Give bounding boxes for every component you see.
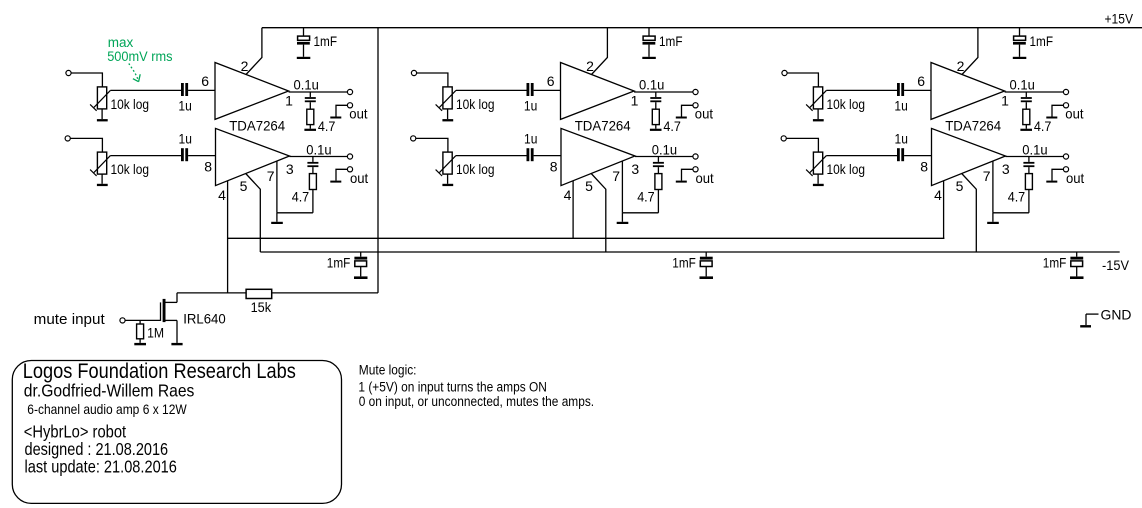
capacitor 0.1u (block 2 ch2 zobel) bbox=[652, 141, 677, 173]
annotation max 500mV rms bbox=[107, 35, 173, 64]
svg-text:8: 8 bbox=[550, 158, 558, 174]
resistor 15k (mute pull-up) bbox=[246, 289, 272, 315]
capacitor 1mF (block 1 -15V decoupling) bbox=[327, 252, 368, 279]
svg-text:7: 7 bbox=[983, 168, 991, 184]
input terminal J6 (block 3 ch2) bbox=[781, 136, 786, 141]
pin 3 label bbox=[286, 161, 294, 177]
svg-text:1u: 1u bbox=[178, 97, 191, 113]
output terminal (block 2 ch1) bbox=[693, 89, 698, 94]
pin 7 wire to ground bbox=[993, 161, 1029, 213]
wire cap to pin 8 bbox=[904, 155, 931, 157]
svg-text:1mF: 1mF bbox=[1043, 255, 1067, 271]
svg-text:4: 4 bbox=[218, 187, 226, 203]
pin 7 wire to ground bbox=[277, 161, 313, 213]
svg-text:10k log: 10k log bbox=[111, 96, 150, 112]
resistor 1M (gate pulldown) bbox=[137, 320, 165, 340]
wire input to potentiometer top bbox=[417, 73, 448, 87]
op-amp TDA7264 A (block 3 ch1) bbox=[931, 63, 1005, 120]
wire pot wiper to coupling cap bbox=[110, 155, 181, 157]
output terminal (block 3 ch1) bbox=[1063, 89, 1068, 94]
+15V rail bbox=[262, 11, 1142, 28]
svg-text:Mute logic:: Mute logic: bbox=[359, 363, 417, 378]
svg-text:IRL640: IRL640 bbox=[183, 311, 226, 327]
pin 3 output wire bbox=[1006, 156, 1064, 158]
svg-text:out: out bbox=[1066, 170, 1084, 186]
svg-text:3: 3 bbox=[286, 161, 294, 177]
svg-text:10k log: 10k log bbox=[456, 161, 495, 177]
svg-text:4.7: 4.7 bbox=[663, 118, 681, 134]
output ground terminal (block 2 ch2) bbox=[693, 167, 698, 172]
svg-text:mute input: mute input bbox=[34, 311, 106, 328]
svg-text:max: max bbox=[108, 35, 134, 50]
svg-text:0.1u: 0.1u bbox=[1010, 76, 1035, 92]
capacitor 0.1u (block 3 ch1 zobel) bbox=[1010, 76, 1035, 109]
pin 7 wire to ground bbox=[622, 161, 658, 213]
pin 4 label bbox=[564, 187, 572, 203]
svg-text:1: 1 bbox=[285, 92, 293, 108]
svg-text:1u: 1u bbox=[894, 97, 907, 113]
svg-text:1: 1 bbox=[631, 92, 639, 108]
pin 3 output wire bbox=[635, 156, 693, 158]
pin 7 label bbox=[983, 168, 991, 184]
svg-text:6-channel audio amp 6 x 12W: 6-channel audio amp 6 x 12W bbox=[27, 401, 187, 417]
wire pot wiper to coupling cap bbox=[826, 89, 897, 91]
capacitor 1u (block 3 ch1 input coupling) bbox=[894, 83, 907, 113]
pin 8 label bbox=[920, 158, 928, 174]
capacitor 1u (block 2 ch1 input coupling) bbox=[524, 83, 537, 113]
capacitor 1u (block 1 ch2 input coupling) bbox=[179, 131, 192, 162]
output terminal (block 1 ch2) bbox=[347, 154, 352, 159]
svg-text:4.7: 4.7 bbox=[1008, 189, 1026, 205]
wire pot wiper to coupling cap bbox=[456, 155, 527, 157]
output ground terminal (block 3 ch1) bbox=[1063, 103, 1068, 108]
pin 1 output wire bbox=[1005, 91, 1064, 93]
ground below potentiometer bbox=[442, 109, 453, 122]
op-amp TDA7264 B (block 3 ch2) bbox=[932, 128, 1006, 185]
IC label TDA7264 (block 3) bbox=[945, 117, 1001, 133]
svg-text:0 on input, or unconnected, mu: 0 on input, or unconnected, mutes the am… bbox=[359, 394, 594, 409]
ground hook at output bbox=[1046, 105, 1083, 121]
pin 4 label bbox=[218, 187, 226, 203]
op-amp TDA7264 B (block 1 ch2) bbox=[216, 128, 290, 185]
wire cap to pin 6 bbox=[188, 89, 215, 91]
output terminal (block 2 ch2) bbox=[693, 154, 698, 159]
mute bus (pin 4 net) bbox=[228, 237, 945, 239]
svg-text:6: 6 bbox=[201, 73, 209, 89]
svg-text:500mV rms: 500mV rms bbox=[107, 49, 173, 64]
svg-text:10k log: 10k log bbox=[827, 96, 866, 112]
op-amp TDA7264 A (block 1 ch1) bbox=[215, 63, 289, 120]
svg-text:-15V: -15V bbox=[1102, 257, 1130, 273]
capacitor 1mF (block 3 -15V decoupling) bbox=[1043, 252, 1084, 279]
wire cap to pin 8 bbox=[534, 155, 561, 157]
svg-text:1u: 1u bbox=[524, 131, 537, 147]
pin 1 label bbox=[1001, 92, 1009, 108]
svg-text:4.7: 4.7 bbox=[318, 118, 336, 134]
+15V feed to mute pull-up wire bbox=[377, 28, 379, 293]
input terminal J4 (block 2 ch2) bbox=[411, 136, 416, 141]
wire cap to pin 6 bbox=[534, 89, 561, 91]
svg-text:4.7: 4.7 bbox=[1034, 118, 1052, 134]
wire input to potentiometer top bbox=[416, 138, 448, 152]
pin 4 label bbox=[934, 187, 942, 203]
ground at pin 7 bbox=[617, 213, 629, 224]
pin 7 label bbox=[267, 168, 275, 184]
potentiometer 10k log (block 2 ch1) bbox=[436, 87, 495, 112]
svg-text:dr.Godfried-Willem Raes: dr.Godfried-Willem Raes bbox=[24, 381, 195, 401]
wire input to potentiometer top bbox=[70, 138, 102, 152]
svg-text:1 (+5V) on input turns the amp: 1 (+5V) on input turns the amps ON bbox=[358, 380, 547, 395]
ground below potentiometer bbox=[813, 109, 824, 122]
capacitor 0.1u (block 1 ch2 zobel) bbox=[306, 141, 331, 173]
wire 4.7 down to pin7 node bbox=[657, 190, 659, 213]
svg-text:15k: 15k bbox=[251, 299, 272, 315]
resistor 4.7 (block 2 ch2 zobel) bbox=[637, 174, 662, 205]
svg-text:2: 2 bbox=[586, 58, 594, 74]
svg-text:1mF: 1mF bbox=[1030, 33, 1054, 49]
svg-text:2: 2 bbox=[241, 58, 249, 74]
pin 8 label bbox=[204, 158, 212, 174]
svg-text:1mF: 1mF bbox=[672, 255, 696, 271]
ground hook at output bbox=[676, 169, 714, 186]
capacitor 0.1u (block 3 ch2 zobel) bbox=[1022, 141, 1047, 173]
wire cap to pin 8 bbox=[188, 155, 215, 157]
resistor 4.7 (block 1 ch2 zobel) bbox=[292, 174, 317, 205]
resistor 4.7 (block 1 ch1 zobel) bbox=[307, 109, 336, 134]
pin 8 label bbox=[550, 158, 558, 174]
wire input to potentiometer top bbox=[787, 73, 818, 87]
ground below potentiometer bbox=[813, 174, 824, 186]
pin 5 wire down to -15V rail bbox=[591, 174, 606, 253]
ground hook at output bbox=[330, 169, 368, 186]
wire input to potentiometer top bbox=[786, 138, 818, 152]
wire mute input to gate bbox=[125, 319, 160, 321]
input terminal J5 (block 3 ch1) bbox=[782, 70, 787, 75]
resistor 4.7 (block 3 ch1 zobel) bbox=[1023, 109, 1052, 134]
GND reference symbol bbox=[1080, 307, 1131, 328]
pin 5 label bbox=[240, 178, 248, 194]
pin 5 label bbox=[956, 178, 964, 194]
ground hook at output bbox=[330, 105, 367, 121]
svg-text:TDA7264: TDA7264 bbox=[575, 117, 631, 133]
ground at pin 7 bbox=[271, 213, 283, 224]
op-amp TDA7264 A (block 2 ch1) bbox=[561, 63, 635, 120]
ground hook at output bbox=[676, 105, 713, 121]
resistor 4.7 (block 3 ch2 zobel) bbox=[1008, 174, 1033, 205]
capacitor 1mF (block 1 +15V decoupling) bbox=[297, 28, 337, 59]
output ground terminal (block 2 ch1) bbox=[693, 103, 698, 108]
potentiometer 10k log (block 2 ch2) bbox=[436, 152, 495, 177]
transistor IRL640 (mute MOSFET) bbox=[161, 293, 226, 327]
svg-text:7: 7 bbox=[267, 168, 275, 184]
pin 6 label bbox=[917, 73, 925, 89]
svg-text:0.1u: 0.1u bbox=[652, 141, 677, 157]
pin 1 output wire bbox=[289, 91, 348, 93]
potentiometer 10k log (block 1 ch2) bbox=[90, 152, 149, 177]
input terminal J3 (block 2 ch1) bbox=[411, 70, 416, 75]
capacitor 0.1u (block 2 ch1 zobel) bbox=[639, 76, 664, 109]
pin 4 wire down to mute bus bbox=[943, 181, 945, 238]
pin 2 wire to +15V rail bbox=[246, 28, 262, 75]
svg-text:1u: 1u bbox=[179, 131, 192, 147]
capacitor 1u (block 1 ch1 input coupling) bbox=[178, 83, 191, 113]
capacitor 1u (block 3 ch2 input coupling) bbox=[895, 131, 908, 162]
wire 4.7 down to pin7 node bbox=[1028, 190, 1030, 213]
pin 2 wire to +15V rail bbox=[962, 28, 978, 75]
svg-text:4: 4 bbox=[934, 187, 942, 203]
svg-text:6: 6 bbox=[917, 73, 925, 89]
resistor 4.7 (block 2 ch1 zobel) bbox=[652, 109, 681, 134]
svg-text:out: out bbox=[695, 106, 713, 122]
ground below 4.7 resistor bbox=[304, 125, 316, 131]
pin 2 label bbox=[586, 58, 594, 74]
capacitor 0.1u (block 1 ch1 zobel) bbox=[294, 76, 319, 109]
potentiometer 10k log (block 3 ch2) bbox=[806, 152, 865, 177]
pin 7 label bbox=[612, 168, 620, 184]
wire cap to pin 6 bbox=[904, 89, 931, 91]
pin 3 label bbox=[1002, 161, 1010, 177]
input terminal J1 (block 1 ch1) bbox=[66, 70, 71, 75]
wire pot wiper to coupling cap bbox=[826, 155, 897, 157]
svg-text:+15V: +15V bbox=[1105, 11, 1134, 27]
output ground terminal (block 1 ch2) bbox=[347, 167, 352, 172]
IC label TDA7264 (block 2) bbox=[575, 117, 631, 133]
svg-text:3: 3 bbox=[631, 161, 639, 177]
svg-text:0.1u: 0.1u bbox=[294, 76, 319, 92]
svg-text:out: out bbox=[696, 170, 714, 186]
svg-text:1u: 1u bbox=[524, 97, 537, 113]
svg-text:Logos Foundation Research Labs: Logos Foundation Research Labs bbox=[23, 359, 296, 383]
ground below potentiometer bbox=[442, 174, 453, 186]
-15V rail (pin 5 net) bbox=[260, 252, 1129, 273]
wire 4.7 down to pin7 node bbox=[312, 190, 314, 213]
svg-text:5: 5 bbox=[240, 178, 248, 194]
pin 4 wire down to mute wire bbox=[227, 181, 229, 293]
svg-text:GND: GND bbox=[1101, 307, 1132, 323]
capacitor 1mF (block 3 +15V decoupling) bbox=[1013, 28, 1053, 59]
svg-text:out: out bbox=[350, 170, 368, 186]
svg-text:5: 5 bbox=[956, 178, 964, 194]
svg-text:1mF: 1mF bbox=[659, 33, 683, 49]
output terminal (block 1 ch1) bbox=[347, 89, 352, 94]
pin 2 label bbox=[241, 58, 249, 74]
ground at MOSFET source bbox=[171, 320, 182, 345]
mute logic note bbox=[358, 363, 594, 410]
output ground terminal (block 1 ch1) bbox=[347, 103, 352, 108]
svg-text:6: 6 bbox=[547, 73, 555, 89]
op-amp TDA7264 B (block 2 ch2) bbox=[561, 128, 635, 185]
capacitor 1mF (block 2 +15V decoupling) bbox=[642, 28, 682, 59]
pin 6 label bbox=[547, 73, 555, 89]
ground below 1M bbox=[134, 339, 146, 346]
svg-text:TDA7264: TDA7264 bbox=[229, 117, 285, 133]
svg-text:1mF: 1mF bbox=[327, 255, 351, 271]
pin 2 wire to +15V rail bbox=[592, 28, 608, 75]
pin 1 label bbox=[631, 92, 639, 108]
input terminal J2 (block 1 ch2) bbox=[65, 136, 70, 141]
mute input label bbox=[34, 311, 106, 328]
svg-text:1u: 1u bbox=[895, 131, 908, 147]
pin 3 output wire bbox=[290, 156, 348, 158]
svg-text:1mF: 1mF bbox=[314, 33, 338, 49]
capacitor 1u (block 2 ch2 input coupling) bbox=[524, 131, 537, 162]
svg-text:4: 4 bbox=[564, 187, 572, 203]
ground below 4.7 resistor bbox=[650, 125, 662, 131]
svg-text:7: 7 bbox=[612, 168, 620, 184]
svg-text:4.7: 4.7 bbox=[637, 189, 655, 205]
svg-text:0.1u: 0.1u bbox=[306, 141, 331, 157]
ground below potentiometer bbox=[97, 174, 108, 186]
potentiometer 10k log (block 1 ch1) bbox=[90, 87, 149, 112]
svg-text:4.7: 4.7 bbox=[292, 189, 310, 205]
wire input to potentiometer top bbox=[71, 73, 102, 87]
svg-text:8: 8 bbox=[920, 158, 928, 174]
svg-text:10k log: 10k log bbox=[111, 161, 150, 177]
pin 6 label bbox=[201, 73, 209, 89]
capacitor 1mF (block 2 -15V decoupling) bbox=[672, 252, 713, 279]
pin 4 wire down to mute bus bbox=[572, 181, 574, 238]
pin 5 wire down to -15V rail bbox=[962, 174, 977, 253]
ground hook at output bbox=[1046, 169, 1084, 186]
svg-text:TDA7264: TDA7264 bbox=[945, 117, 1001, 133]
svg-text:0.1u: 0.1u bbox=[1022, 141, 1047, 157]
wire pot wiper to coupling cap bbox=[456, 89, 527, 91]
pin 1 output wire bbox=[634, 91, 693, 93]
output ground terminal (block 3 ch2) bbox=[1063, 167, 1068, 172]
svg-text:2: 2 bbox=[957, 58, 965, 74]
svg-text:out: out bbox=[349, 106, 367, 122]
svg-text:out: out bbox=[1065, 106, 1083, 122]
svg-text:1M: 1M bbox=[147, 325, 164, 341]
output terminal (block 3 ch2) bbox=[1063, 154, 1068, 159]
annotation arrow bbox=[129, 64, 140, 82]
ground below 4.7 resistor bbox=[1020, 125, 1032, 131]
potentiometer 10k log (block 3 ch1) bbox=[806, 87, 865, 112]
IC label TDA7264 (block 1) bbox=[229, 117, 285, 133]
mute input terminal bbox=[120, 318, 125, 323]
pin 2 label bbox=[957, 58, 965, 74]
svg-text:10k log: 10k log bbox=[456, 96, 495, 112]
svg-text:last update: 21.08.2016: last update: 21.08.2016 bbox=[25, 457, 177, 477]
pin 5 label bbox=[585, 178, 593, 194]
svg-text:5: 5 bbox=[585, 178, 593, 194]
pin 1 label bbox=[285, 92, 293, 108]
svg-text:3: 3 bbox=[1002, 161, 1010, 177]
svg-text:0.1u: 0.1u bbox=[639, 76, 664, 92]
ground at pin 7 bbox=[987, 213, 999, 224]
svg-text:10k log: 10k log bbox=[827, 161, 866, 177]
title box bbox=[12, 359, 341, 503]
wire pot wiper to coupling cap bbox=[110, 89, 181, 91]
svg-text:8: 8 bbox=[204, 158, 212, 174]
ground below potentiometer bbox=[97, 109, 108, 122]
mute pull-up wire bbox=[177, 292, 378, 294]
pin 5 wire down to -15V rail bbox=[246, 174, 261, 253]
pin 3 label bbox=[631, 161, 639, 177]
svg-text:1: 1 bbox=[1001, 92, 1009, 108]
